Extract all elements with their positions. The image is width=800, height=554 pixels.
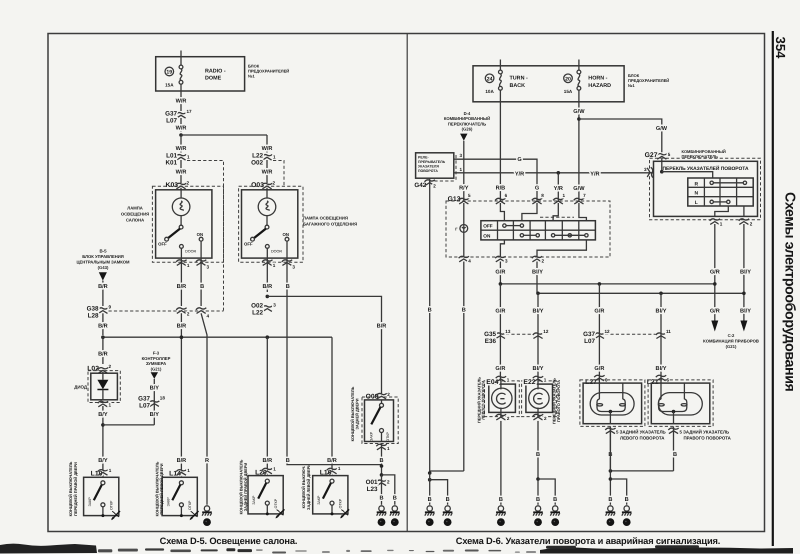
fuse 19 15A [180, 51, 182, 66]
svg-text:БЛОК УПРАВЛЕНИЯ: БЛОК УПРАВЛЕНИЯ [82, 254, 124, 259]
svg-text:B/R: B/R [98, 283, 108, 290]
svg-text:Схема D-6. Указатели поворота: Схема D-6. Указатели поворота и аварийна… [456, 536, 720, 546]
svg-text:3: 3 [644, 167, 647, 172]
svg-text:3: 3 [273, 303, 276, 308]
svg-text:L: L [695, 200, 698, 206]
connector G37/L07 pin 18 [149, 401, 159, 407]
trunk lamp + switch O03 [242, 190, 298, 258]
dashed connector link [109, 310, 224, 312]
svg-text:L23: L23 [367, 486, 378, 493]
svg-text:12: 12 [605, 329, 611, 334]
svg-text:ЗАКР: ЗАКР [88, 497, 92, 507]
svg-text:C-2: C-2 [728, 333, 735, 338]
svg-text:(G21): (G21) [151, 366, 162, 371]
combo switch G27 [657, 154, 667, 160]
svg-text:2: 2 [542, 259, 545, 264]
O03 pins 1,3 [262, 260, 272, 266]
bottom scan band [0, 544, 97, 554]
svg-text:B/Y: B/Y [150, 411, 160, 418]
svg-text:ОТКР: ОТКР [339, 498, 343, 508]
svg-text:САЛОНА: САЛОНА [126, 218, 144, 223]
svg-text:DOOR: DOOR [185, 250, 196, 254]
svg-text:B/R: B/R [177, 457, 187, 464]
Y/R wire relay pin1 [454, 172, 654, 174]
O03 dashed harness box [239, 186, 303, 262]
svg-text:Bl/Y: Bl/Y [532, 268, 543, 275]
svg-text:B/Y: B/Y [98, 411, 108, 418]
svg-text:2: 2 [544, 416, 547, 421]
svg-text:R/Y: R/Y [459, 184, 469, 191]
svg-text:G/W: G/W [573, 185, 585, 192]
O03-on B wire to ground join [287, 462, 382, 464]
front turn lamp left E04 [485, 381, 520, 417]
svg-text:Bl/Y: Bl/Y [656, 307, 667, 314]
svg-text:O01: O01 [366, 479, 378, 486]
svg-text:ЗАКР: ЗАКР [370, 431, 374, 441]
svg-text:OFF: OFF [158, 241, 167, 246]
svg-text:2: 2 [433, 183, 436, 188]
svg-text:G/R: G/R [710, 268, 720, 275]
svg-text:L07: L07 [584, 338, 595, 345]
svg-text:W/R: W/R [176, 169, 187, 176]
svg-text:Bl/Y: Bl/Y [533, 307, 544, 314]
svg-text:6: 6 [505, 193, 508, 198]
G27 internal [660, 170, 664, 174]
svg-text:(G43): (G43) [98, 265, 109, 270]
svg-text:13: 13 [505, 329, 511, 334]
svg-text:W/R: W/R [176, 145, 187, 152]
svg-text:L02: L02 [87, 365, 99, 372]
turn signal relay (flasher) [416, 153, 454, 178]
svg-text:В-5: В-5 [99, 248, 107, 253]
ground: rear left turn lamp [606, 506, 616, 526]
svg-text:2: 2 [187, 181, 190, 186]
svg-text:7: 7 [583, 193, 586, 198]
svg-text:ПРАВОГО ПОВОРОТА: ПРАВОГО ПОВОРОТА [684, 436, 732, 441]
svg-text:1: 1 [187, 263, 190, 268]
ground: front left turn lamp [496, 506, 506, 526]
svg-text:1: 1 [338, 466, 341, 471]
svg-text:ПРЕРЫВАТЕЛЬ: ПРЕРЫВАТЕЛЬ [418, 160, 446, 164]
svg-text:1: 1 [507, 377, 510, 382]
svg-text:ЦЕНТРАЛЬНЫМ ЗАМКОМ: ЦЕНТРАЛЬНЫМ ЗАМКОМ [76, 259, 130, 264]
door switch L10 front right [84, 477, 119, 517]
svg-text:B: B [499, 497, 503, 503]
svg-text:B/R: B/R [262, 457, 272, 464]
G/R from G27 [714, 224, 716, 321]
svg-text:G38: G38 [87, 305, 99, 312]
svg-text:B: B [553, 497, 557, 503]
svg-text:B/R: B/R [177, 322, 187, 329]
svg-text:2: 2 [387, 479, 390, 484]
G13 bottom pins 4,3,2 [500, 240, 504, 257]
right margin rule [772, 31, 774, 546]
svg-text:G/R: G/R [495, 307, 505, 314]
ground: hazard switch [443, 506, 453, 526]
connector L01/K01 pin 1 [176, 155, 186, 161]
svg-text:ОТКР: ОТКР [109, 500, 113, 510]
ground: front right turn lamp 2 [550, 506, 560, 526]
svg-text:E22: E22 [523, 379, 535, 386]
rear lamps ground join [610, 470, 673, 472]
svg-text:№1: №1 [248, 74, 255, 79]
ground: interior lamp circuit [202, 506, 212, 526]
svg-text:354: 354 [773, 37, 788, 60]
svg-text:12: 12 [543, 329, 549, 334]
K03 pins 1,3 [176, 260, 186, 266]
connector G37/L07 pins 12,11 [594, 333, 604, 339]
svg-text:R: R [694, 181, 698, 187]
svg-text:ЗАДНЕЙ ПРАВОЙ ДВЕРИ: ЗАДНЕЙ ПРАВОЙ ДВЕРИ [243, 463, 248, 512]
node: O02 door junction [266, 295, 270, 299]
svg-text:G/W: G/W [573, 108, 585, 115]
svg-text:L07: L07 [139, 402, 150, 409]
svg-text:B: B [393, 496, 397, 502]
fuse box #1 (TURN/HORN) [473, 66, 624, 102]
ground: tailgate lamp circuit 1 [377, 506, 387, 526]
svg-text:Y/R: Y/R [554, 185, 563, 192]
wire to O09 tailgate switch [267, 296, 381, 394]
svg-text:4: 4 [207, 314, 210, 319]
svg-text:1: 1 [187, 468, 190, 473]
door switch L20 rear right [248, 476, 283, 516]
connector G37/L07 pin 17 [176, 113, 186, 119]
svg-text:1: 1 [720, 221, 723, 226]
svg-text:2: 2 [750, 221, 753, 226]
svg-text:11: 11 [666, 329, 671, 334]
wire G42 to ground [429, 178, 431, 473]
svg-text:1: 1 [273, 155, 276, 160]
svg-text:2: 2 [507, 416, 510, 421]
svg-text:B: B [462, 307, 466, 313]
svg-text:B: B [625, 497, 629, 503]
ground: rear right turn lamp [622, 506, 632, 526]
svg-text:2: 2 [273, 181, 276, 186]
svg-text:ЗАКР: ЗАКР [166, 497, 170, 507]
wire K03-on to ground [201, 313, 207, 505]
svg-text:Y/R: Y/R [515, 170, 524, 177]
wire to E22 [537, 293, 539, 381]
svg-text:B: B [286, 458, 290, 464]
svg-text:(G26): (G26) [462, 127, 473, 132]
svg-text:1: 1 [109, 403, 112, 408]
svg-text:ПЕРЕДНЕЙ ПРАВОЙ ДВЕРИ: ПЕРЕДНЕЙ ПРАВОЙ ДВЕРИ [73, 462, 78, 516]
wire to trunk-lamp branch [181, 134, 267, 136]
C-2 cluster arrows [711, 321, 718, 332]
wire bus to L16 [331, 337, 333, 475]
svg-text:B: B [608, 497, 612, 503]
svg-text:Bl/Y: Bl/Y [740, 307, 751, 314]
svg-text:E04: E04 [486, 379, 498, 386]
svg-text:G42: G42 [414, 182, 426, 189]
door switch L16 rear left [313, 476, 348, 516]
svg-text:W/R: W/R [176, 97, 187, 104]
svg-text:Y/R: Y/R [590, 170, 599, 177]
wire to L21 [660, 293, 662, 383]
svg-text:1: 1 [387, 446, 390, 451]
svg-text:5: 5 [468, 193, 471, 198]
svg-text:G/R: G/R [594, 365, 604, 372]
svg-text:L22: L22 [252, 309, 263, 316]
svg-text:ПОВОРОТА: ПОВОРОТА [418, 169, 438, 173]
svg-text:G/R: G/R [495, 365, 505, 372]
svg-text:DOOR: DOOR [271, 250, 282, 254]
svg-text:B: B [536, 452, 540, 458]
ground: front right turn lamp 1 [533, 506, 543, 526]
svg-text:B/R: B/R [377, 322, 387, 329]
svg-text:ОТКР: ОТКР [386, 432, 390, 442]
svg-text:B: B [200, 284, 204, 290]
fuse box #1 (RADIO-DOME) [156, 57, 245, 91]
wire to E04 [499, 284, 501, 381]
svg-text:2: 2 [109, 364, 112, 369]
svg-text:TURN -: TURN - [510, 76, 528, 82]
svg-text:B: B [428, 497, 432, 503]
svg-text:БАГАЖНОГО ОТДЕЛЕНИЯ: БАГАЖНОГО ОТДЕЛЕНИЯ [303, 222, 357, 227]
svg-text:R: R [205, 458, 209, 464]
E22 ground wires [537, 421, 539, 505]
svg-text:G/R: G/R [594, 307, 604, 314]
svg-text:Bl/Y: Bl/Y [656, 365, 667, 372]
svg-text:L22: L22 [252, 152, 263, 159]
svg-text:5 ЗАДНИЙ УКАЗАТЕЛЬ: 5 ЗАДНИЙ УКАЗАТЕЛЬ [616, 430, 666, 435]
svg-text:УКАЗАТЕЛЯ: УКАЗАТЕЛЯ [418, 165, 439, 169]
svg-text:E36: E36 [485, 338, 497, 345]
svg-text:B/Y: B/Y [98, 457, 108, 464]
svg-text:КОМБИНИРОВАННЫЙ: КОМБИНИРОВАННЫЙ [682, 149, 726, 154]
ground: tailgate lamp circuit 2 [390, 506, 400, 526]
svg-text:3: 3 [505, 259, 508, 264]
svg-text:5: 5 [668, 152, 671, 157]
Bl/Y bus [537, 292, 744, 294]
svg-text:G/W: G/W [656, 125, 668, 132]
svg-text:ПЕРЕДНЕЙ ЛЕВОЙ ДВЕРИ: ПЕРЕДНЕЙ ЛЕВОЙ ДВЕРИ [159, 463, 164, 514]
svg-text:(G21): (G21) [726, 344, 737, 349]
svg-text:3: 3 [207, 264, 210, 269]
svg-text:РЕЛЕ-: РЕЛЕ- [418, 156, 429, 160]
wire to L27 [598, 284, 600, 383]
svg-text:B: B [286, 284, 290, 290]
svg-text:ON: ON [483, 233, 491, 238]
G/W wire to G27 [579, 119, 662, 152]
svg-text:B/R: B/R [262, 283, 272, 290]
connector G35/E36 pins 13,12 [495, 333, 505, 339]
svg-text:ЗАДНЕЙ ЛЕВОЙ ДВЕРИ: ЗАДНЕЙ ЛЕВОЙ ДВЕРИ [306, 464, 311, 510]
connector G38/L28 pins 9,2,4 [98, 308, 108, 314]
G/R bus [500, 283, 714, 285]
svg-text:24: 24 [487, 76, 493, 82]
interior lamp + switch K03 [156, 190, 212, 258]
svg-text:1: 1 [273, 467, 276, 472]
svg-text:B/R: B/R [98, 350, 108, 357]
door switch L14 front left [162, 477, 197, 517]
svg-text:G/R: G/R [495, 268, 505, 275]
buzzer branch bus [103, 424, 154, 426]
svg-text:15A: 15A [564, 89, 573, 94]
svg-text:10A: 10A [485, 89, 494, 94]
svg-text:Схема D-5. Освещение салона.: Схема D-5. Освещение салона. [160, 536, 298, 546]
svg-text:B: B [536, 497, 540, 503]
svg-text:G/R: G/R [710, 307, 720, 314]
svg-text:3: 3 [292, 264, 295, 269]
svg-text:15A: 15A [165, 83, 174, 88]
svg-text:1: 1 [187, 155, 190, 160]
K03 dashed harness box [152, 186, 223, 262]
svg-text:O02: O02 [251, 302, 263, 309]
svg-text:КОМБИНАЦИЯ ПРИБОРОВ: КОМБИНАЦИЯ ПРИБОРОВ [703, 338, 759, 343]
svg-text:5 ЗАДНИЙ УКАЗАТЕЛЬ: 5 ЗАДНИЙ УКАЗАТЕЛЬ [680, 430, 730, 435]
svg-text:1: 1 [460, 167, 463, 172]
hazard indicator lamp [463, 203, 465, 257]
front turn lamp right E22 [522, 381, 557, 417]
fuse 24 TURN-BACK 10A [499, 60, 501, 71]
svg-text:9: 9 [109, 305, 112, 310]
svg-text:B/Y: B/Y [150, 384, 160, 391]
svg-text:8: 8 [541, 193, 544, 198]
svg-text:W/R: W/R [262, 169, 273, 176]
svg-text:L28: L28 [88, 312, 99, 319]
svg-text:B/R: B/R [327, 457, 337, 464]
svg-text:18: 18 [160, 396, 166, 401]
svg-text:ЛАМПА: ЛАМПА [127, 206, 142, 211]
svg-text:O02: O02 [251, 159, 263, 166]
svg-text:HAZARD: HAZARD [588, 83, 611, 89]
svg-text:ЛЕВОГО ПОВОРОТА: ЛЕВОГО ПОВОРОТА [481, 380, 486, 420]
svg-text:Bl/Y: Bl/Y [533, 365, 544, 372]
svg-text:G37: G37 [583, 331, 595, 338]
svg-text:ЗАКР: ЗАКР [317, 495, 321, 505]
svg-text:ОТКР: ОТКР [188, 500, 192, 510]
svg-text:19: 19 [166, 70, 172, 76]
svg-text:17: 17 [187, 109, 193, 114]
svg-text:1: 1 [544, 377, 547, 382]
svg-text:K01: K01 [165, 159, 177, 166]
svg-text:N: N [694, 191, 698, 197]
svg-text:OFF: OFF [244, 241, 253, 246]
Bl/Y from G27 [743, 224, 745, 321]
hazard switch table [500, 203, 504, 221]
svg-text:ON: ON [197, 232, 203, 237]
svg-text:R/B: R/B [496, 184, 506, 191]
svg-text:G35: G35 [484, 331, 496, 338]
harness dashed link K01 [187, 161, 224, 311]
G27 outputs pins 1,2 [715, 206, 729, 216]
svg-text:1: 1 [563, 193, 566, 198]
connector O01/L23 pin 2 [382, 475, 395, 505]
B/R bus [103, 336, 332, 338]
svg-text:G: G [517, 157, 521, 163]
svg-text:B/R: B/R [177, 283, 187, 290]
svg-text:L07: L07 [166, 117, 177, 124]
svg-text:2: 2 [387, 392, 390, 397]
fuse 20 HORN-HAZARD 15A [578, 60, 580, 71]
svg-text:DOME: DOME [205, 76, 222, 82]
svg-text:ДИОД: ДИОД [74, 385, 88, 390]
svg-text:Схемы электрооборудования: Схемы электрооборудования [782, 192, 798, 392]
G wire relay pin3 [454, 159, 537, 201]
E04 ground wire [500, 421, 502, 505]
svg-text:ЛЕВОГО ПОВОРОТА: ЛЕВОГО ПОВОРОТА [620, 436, 665, 441]
svg-text:G37: G37 [138, 395, 150, 402]
svg-text:BACK: BACK [510, 83, 526, 89]
relay/G13 ground join [430, 470, 464, 472]
svg-text:20: 20 [565, 76, 571, 82]
trunk lamp branch wire [266, 135, 268, 153]
svg-text:Bl/Y: Bl/Y [740, 268, 751, 275]
svg-text:OFF: OFF [483, 224, 493, 229]
wire K03-door to L14 [180, 313, 182, 468]
svg-text:ПРАВОГО ПОВОРОТА: ПРАВОГО ПОВОРОТА [556, 380, 561, 422]
svg-text:3: 3 [460, 153, 463, 158]
svg-text:G37: G37 [165, 110, 177, 117]
svg-text:№1: №1 [628, 83, 635, 88]
svg-text:B: B [428, 307, 432, 313]
svg-text:ЗАКР: ЗАКР [252, 495, 256, 505]
svg-text:2: 2 [187, 312, 190, 317]
svg-text:RADIO -: RADIO - [205, 69, 226, 75]
svg-text:B/R: B/R [98, 322, 108, 329]
svg-text:ПЕРЕКЛЬ УКАЗАТЕЛЕЙ ПОВОРОТА: ПЕРЕКЛЬ УКАЗАТЕЛЕЙ ПОВОРОТА [662, 165, 749, 172]
svg-text:ЛАМПА ОСВЕЩЕНИЯ: ЛАМПА ОСВЕЩЕНИЯ [303, 216, 348, 221]
svg-text:B: B [446, 497, 450, 503]
svg-text:4: 4 [468, 259, 471, 264]
svg-text:W/R: W/R [262, 145, 273, 152]
svg-text:1: 1 [109, 468, 112, 473]
node: W/R junction [179, 133, 183, 137]
svg-text:ОТКР: ОТКР [274, 498, 278, 508]
svg-text:ЗАДНЕЙ ДВЕРИ: ЗАДНЕЙ ДВЕРИ [355, 398, 360, 429]
svg-text:1: 1 [273, 263, 276, 268]
svg-text:ОСВЕЩЕНИЯ: ОСВЕЩЕНИЯ [121, 212, 149, 217]
svg-text:B: B [379, 496, 383, 502]
svg-text:ON: ON [283, 232, 289, 237]
ground: flasher relay [425, 506, 435, 526]
svg-text:G: G [535, 185, 539, 191]
svg-text:W/R: W/R [176, 124, 187, 131]
harness dashed link O02 [273, 161, 284, 187]
svg-text:B: B [673, 452, 677, 458]
connector L22/O02 pin 1 [262, 155, 272, 161]
svg-text:HORN -: HORN - [588, 76, 607, 82]
svg-text:B: B [379, 458, 383, 464]
panel divider [406, 34, 408, 532]
svg-text:L01: L01 [166, 152, 177, 159]
connector O02/L22 pin 3 [262, 306, 272, 312]
